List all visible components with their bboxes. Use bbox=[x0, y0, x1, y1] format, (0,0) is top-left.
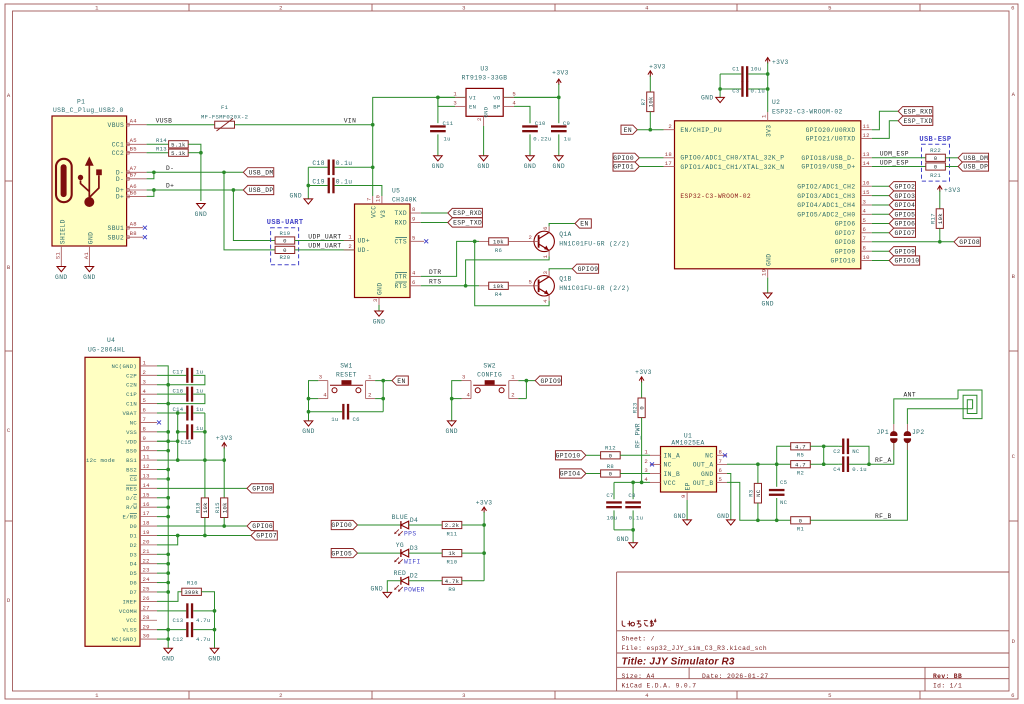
transistor Q1B HN1C01FU-GR bbox=[529, 271, 630, 303]
svg-text:24: 24 bbox=[143, 576, 151, 583]
svg-text:R9: R9 bbox=[448, 586, 455, 593]
global label GPIO10 u2 bbox=[889, 256, 919, 265]
svg-text:GPIO7: GPIO7 bbox=[895, 230, 916, 237]
U4 pin 3 bbox=[140, 378, 157, 385]
label VIN bbox=[344, 118, 356, 125]
svg-text:GPIO9: GPIO9 bbox=[835, 248, 856, 255]
wire RF_A bbox=[869, 443, 894, 464]
svg-text:9: 9 bbox=[412, 216, 416, 223]
svg-text:R11: R11 bbox=[447, 530, 458, 537]
wire U1 EP gnd bbox=[686, 500, 688, 520]
svg-text:14: 14 bbox=[143, 482, 151, 489]
svg-text:VLSS: VLSS bbox=[122, 627, 137, 634]
svg-text:NC: NC bbox=[130, 419, 138, 426]
svg-text:10: 10 bbox=[375, 194, 382, 202]
ground under P1 SHIELD bbox=[55, 267, 67, 281]
capacitor C17 1u bbox=[157, 368, 205, 385]
junction C15 right bbox=[203, 430, 207, 434]
U4 pin names bbox=[112, 363, 138, 643]
svg-text:OUT_B: OUT_B bbox=[693, 480, 714, 487]
svg-text:GPIO21/U0TXD: GPIO21/U0TXD bbox=[806, 136, 856, 143]
wire UDM_UART bbox=[295, 249, 355, 251]
junction mid top bbox=[822, 444, 826, 448]
svg-text:AM1025EA: AM1025EA bbox=[671, 440, 704, 447]
junction D- branch bbox=[222, 170, 226, 174]
svg-text:U3: U3 bbox=[480, 65, 488, 72]
wire D2 to R9 bbox=[409, 580, 443, 582]
svg-text:5: 5 bbox=[828, 692, 832, 699]
U5 pin 9 RXD bbox=[410, 216, 421, 223]
svg-text:D4: D4 bbox=[410, 517, 418, 524]
wire R17 to GPIO8 bbox=[939, 228, 941, 241]
wire R18 top bbox=[204, 460, 206, 498]
svg-text:RF_A: RF_A bbox=[875, 457, 892, 464]
resistor R4 10k bbox=[489, 282, 509, 298]
svg-text:GPIO7: GPIO7 bbox=[256, 533, 277, 540]
svg-text:VBAT: VBAT bbox=[122, 410, 137, 417]
svg-text:GND: GND bbox=[717, 513, 729, 520]
U1 pin 9 EP bbox=[680, 492, 687, 500]
junction C18 VIN bbox=[371, 165, 375, 169]
svg-text:GPIO3: GPIO3 bbox=[895, 193, 916, 200]
junction GPIO8 R17 bbox=[938, 240, 942, 244]
svg-text:BS2: BS2 bbox=[126, 467, 137, 474]
svg-text:B: B bbox=[7, 264, 11, 271]
wire U4 pin22 to bus bbox=[157, 563, 168, 565]
svg-text:KiCad E.D.A. 9.0.7: KiCad E.D.A. 9.0.7 bbox=[622, 683, 697, 690]
svg-text:3: 3 bbox=[319, 374, 323, 381]
svg-text:5.1k: 5.1k bbox=[171, 150, 186, 157]
svg-text:19: 19 bbox=[143, 529, 150, 536]
svg-text:4.7k: 4.7k bbox=[445, 578, 460, 585]
svg-text:D+: D+ bbox=[166, 183, 174, 190]
ground C9 bbox=[553, 156, 565, 170]
title block frame bbox=[617, 572, 1009, 691]
svg-text:15: 15 bbox=[143, 491, 150, 498]
svg-text:2: 2 bbox=[279, 5, 283, 12]
svg-text:1: 1 bbox=[95, 692, 99, 699]
label UDM_UART bbox=[308, 243, 341, 250]
svg-text:HN1C01FU-GR (2/2): HN1C01FU-GR (2/2) bbox=[559, 285, 630, 292]
U5 pin 7 VCC bbox=[366, 196, 373, 204]
svg-text:POWER: POWER bbox=[404, 586, 425, 593]
wire R5 branch bbox=[777, 446, 791, 464]
resistor R5 4.7 bbox=[791, 443, 811, 459]
svg-text:RESET: RESET bbox=[336, 371, 357, 378]
junction CC GND bbox=[199, 151, 203, 155]
junction SW2 pin1 bbox=[525, 379, 529, 383]
U2 vertical pin names bbox=[766, 125, 773, 266]
svg-text:WIFI: WIFI bbox=[404, 559, 421, 566]
power +3V3 leds bbox=[476, 500, 493, 581]
svg-text:NC: NC bbox=[780, 499, 788, 506]
wire U4 pin10 to bus bbox=[157, 450, 168, 452]
svg-text:RTS: RTS bbox=[429, 279, 441, 286]
global label GPIO4 u2 bbox=[889, 200, 915, 209]
junction U4 bus pin13 bbox=[166, 477, 170, 481]
svg-text:CH340K: CH340K bbox=[392, 197, 417, 204]
svg-text:GPIO10: GPIO10 bbox=[556, 453, 581, 460]
global label USB_DP u2 bbox=[958, 162, 988, 171]
svg-text:0: 0 bbox=[283, 238, 287, 245]
junction C12 right bbox=[213, 628, 217, 632]
svg-text:6: 6 bbox=[1011, 692, 1015, 699]
svg-text:ESP_TXD: ESP_TXD bbox=[453, 220, 482, 227]
wire U4 pin3 to bus bbox=[157, 384, 168, 386]
wire EN to U2 bbox=[637, 129, 663, 131]
svg-text:1: 1 bbox=[95, 5, 99, 12]
svg-text:D/C: D/C bbox=[126, 495, 137, 502]
resistor R12 0 bbox=[601, 445, 621, 460]
junction C3 left bbox=[718, 87, 722, 91]
global label GPIO9 u2 bbox=[889, 247, 915, 256]
svg-text:2.2k: 2.2k bbox=[445, 522, 460, 529]
wire SW2 right leg bbox=[518, 381, 535, 399]
svg-text:5: 5 bbox=[529, 278, 533, 285]
svg-text:GPIO8: GPIO8 bbox=[959, 239, 980, 246]
svg-text:Id: 1/1: Id: 1/1 bbox=[933, 683, 962, 690]
no-connect P1 SBU2 bbox=[143, 235, 147, 239]
svg-text:IN_A: IN_A bbox=[664, 453, 681, 460]
svg-text:CC1: CC1 bbox=[112, 142, 124, 149]
svg-text:VCC: VCC bbox=[664, 480, 676, 487]
svg-text:R12: R12 bbox=[605, 445, 616, 452]
no-connect U4 pin7 bbox=[157, 420, 161, 424]
U5 pin 2 UD- bbox=[344, 243, 355, 250]
wire GPIO5 bbox=[872, 213, 889, 215]
svg-text:23: 23 bbox=[143, 567, 150, 574]
svg-text:1: 1 bbox=[511, 374, 515, 381]
svg-text:RES: RES bbox=[126, 485, 137, 492]
svg-text:USB_DP: USB_DP bbox=[249, 187, 274, 194]
svg-text:3: 3 bbox=[644, 467, 648, 474]
svg-text:R18: R18 bbox=[195, 502, 202, 513]
svg-text:C12: C12 bbox=[173, 636, 184, 643]
svg-text:R6: R6 bbox=[495, 247, 502, 254]
wire U1 GND pin bbox=[727, 474, 731, 520]
switch SW1 RESET bbox=[318, 362, 375, 398]
svg-text:30: 30 bbox=[143, 633, 151, 640]
svg-text:0: 0 bbox=[639, 406, 646, 410]
wire OUT_B to RF_B bbox=[727, 482, 791, 520]
no-connect U5 CTS bbox=[424, 239, 428, 243]
global label USB_DP left bbox=[243, 185, 273, 194]
svg-text:GND: GND bbox=[371, 585, 383, 592]
wire VIN bbox=[235, 97, 559, 124]
junction U4 bus pin21 bbox=[166, 552, 170, 556]
svg-text:1k: 1k bbox=[448, 550, 456, 557]
jumper JP1 bbox=[877, 424, 898, 450]
global label USB_DM u2 bbox=[958, 153, 988, 162]
svg-text:GPIO18/USB_D-: GPIO18/USB_D- bbox=[801, 155, 855, 162]
svg-text:GPIO10: GPIO10 bbox=[895, 258, 920, 265]
svg-text:B: B bbox=[1012, 273, 1016, 280]
global label EN u2 bbox=[621, 125, 637, 134]
svg-text:GPIO9: GPIO9 bbox=[541, 378, 562, 385]
P1 pin A1 GND bbox=[83, 232, 95, 266]
U4 pin 7 bbox=[140, 416, 157, 423]
svg-text:GPIO2/ADC1_CH2: GPIO2/ADC1_CH2 bbox=[797, 183, 855, 190]
svg-text:29: 29 bbox=[143, 623, 150, 630]
svg-text:USB_DM: USB_DM bbox=[963, 155, 988, 162]
svg-text:SW1: SW1 bbox=[340, 362, 352, 369]
svg-text:C10: C10 bbox=[535, 120, 546, 127]
svg-text:NC(GND): NC(GND) bbox=[112, 363, 137, 370]
power +3V3 U4 bbox=[216, 435, 233, 460]
junction C1 right bbox=[766, 72, 770, 76]
svg-text:GPIO4: GPIO4 bbox=[895, 202, 916, 209]
svg-text:GPIO7: GPIO7 bbox=[835, 230, 856, 237]
U2 ref value bbox=[772, 99, 843, 115]
U4 pin 11 bbox=[140, 454, 157, 461]
junction R18 GPIO7 bbox=[203, 534, 207, 538]
wire GPIO5 to D3 bbox=[358, 552, 401, 554]
note box USB-UART bbox=[267, 219, 304, 265]
junction DTR R6 bbox=[473, 240, 477, 244]
svg-text:R20: R20 bbox=[279, 254, 290, 261]
power +3V3 at U2 bbox=[765, 58, 788, 113]
svg-text:GPIO3/ADC1_CH3: GPIO3/ADC1_CH3 bbox=[797, 193, 855, 200]
U5 pin 1 UD+ bbox=[344, 234, 355, 241]
global label GPIO6 u2 bbox=[889, 219, 915, 228]
svg-text:3: 3 bbox=[462, 692, 466, 699]
svg-text:GPIO8: GPIO8 bbox=[835, 239, 856, 246]
junction U4 bus pin12 bbox=[166, 468, 170, 472]
svg-text:GPIO4: GPIO4 bbox=[560, 471, 581, 478]
module U2 ESP32-C3-WROOM-02 bbox=[675, 121, 861, 269]
U4 pin 19 bbox=[140, 529, 157, 536]
svg-text:R4: R4 bbox=[495, 291, 503, 298]
note box USB-ESP bbox=[919, 136, 951, 181]
ground D2 bbox=[371, 585, 392, 597]
svg-text:GPIO1/ADC1_CH1/XTAL_32K_N: GPIO1/ADC1_CH1/XTAL_32K_N bbox=[680, 164, 784, 171]
svg-text:C9: C9 bbox=[563, 120, 570, 127]
svg-text:GND: GND bbox=[524, 163, 536, 170]
capacitor C18 0.1u bbox=[308, 160, 372, 176]
resistor R10 1k bbox=[442, 550, 462, 566]
svg-text:GND: GND bbox=[162, 656, 174, 663]
wire Q1A emitter to RTS bbox=[466, 256, 549, 285]
U4 pin 5 bbox=[140, 397, 157, 404]
svg-text:6: 6 bbox=[863, 226, 867, 233]
junction mid bottom bbox=[822, 462, 826, 466]
svg-text:C18: C18 bbox=[312, 160, 324, 167]
svg-text:8: 8 bbox=[412, 206, 416, 213]
svg-text:GPIO10: GPIO10 bbox=[831, 258, 856, 265]
LED D4 BLUE bbox=[392, 514, 419, 538]
capacitor C2 NC bbox=[833, 439, 869, 465]
wire U2 gnd bbox=[767, 278, 769, 293]
svg-text:+3V3: +3V3 bbox=[772, 59, 789, 66]
svg-text:U1: U1 bbox=[684, 433, 692, 440]
svg-text:VO: VO bbox=[493, 95, 501, 102]
U5 pin 3 GND bbox=[372, 298, 379, 306]
svg-text:R21: R21 bbox=[930, 172, 941, 179]
wire U4 pin30 to bus bbox=[157, 638, 168, 640]
svg-text:BP: BP bbox=[493, 104, 501, 111]
wire R11 to rail bbox=[462, 524, 484, 526]
svg-text:File: esp32_JJY_sim_C3_R3.kica: File: esp32_JJY_sim_C3_R3.kicad_sch bbox=[622, 645, 768, 652]
svg-text:JP2: JP2 bbox=[912, 429, 924, 436]
junction U4 bus pin5 bbox=[166, 402, 170, 406]
U4 pin 25 bbox=[140, 586, 157, 593]
wire D+ bbox=[147, 190, 244, 196]
resistor R15 10k bbox=[214, 498, 228, 518]
svg-text:C1N: C1N bbox=[126, 401, 137, 408]
global label USB_DM left bbox=[243, 168, 273, 177]
wire U2 RXD to ESP_RXD bbox=[872, 111, 898, 130]
power +3V3 at U3 bbox=[552, 70, 569, 98]
power +3V3 R23 bbox=[635, 369, 652, 398]
global label GPIO7 u4 bbox=[251, 531, 277, 540]
junction RTS R4 bbox=[464, 284, 468, 288]
U4 pin 10 bbox=[140, 444, 157, 451]
U4 pin 24 bbox=[140, 576, 157, 583]
global label GPIO8 u2 bbox=[954, 237, 980, 246]
svg-text:4: 4 bbox=[412, 270, 416, 277]
svg-text:GPIO9: GPIO9 bbox=[578, 266, 599, 273]
svg-text:ESP32-C3-WROOM-02: ESP32-C3-WROOM-02 bbox=[680, 193, 751, 200]
svg-text:Rev: BB: Rev: BB bbox=[933, 673, 962, 680]
svg-text:GND: GND bbox=[373, 318, 385, 325]
wire GPIO3 bbox=[872, 195, 889, 197]
ground U2 bbox=[761, 293, 773, 307]
wire GPIO4 to R8 bbox=[586, 473, 601, 475]
svg-text:Sheet: /: Sheet: / bbox=[622, 636, 655, 643]
svg-text:D3: D3 bbox=[130, 551, 137, 558]
no-connect U1 pin8 bbox=[723, 453, 727, 457]
svg-text:VCC: VCC bbox=[371, 206, 378, 218]
title block company logo text bbox=[622, 619, 656, 627]
svg-text:GPIO8: GPIO8 bbox=[252, 486, 273, 493]
global label GPIO5 u2 bbox=[889, 210, 915, 219]
svg-text:R16: R16 bbox=[187, 580, 198, 587]
wire R12 to IN_A bbox=[620, 454, 650, 456]
svg-text:0.1u: 0.1u bbox=[336, 160, 353, 167]
svg-text:MF-FSMF020X-2: MF-FSMF020X-2 bbox=[201, 113, 248, 120]
wire GPIO7 bbox=[872, 232, 889, 234]
resistor R16 390k bbox=[157, 580, 215, 611]
wire U4 pin21 to bus bbox=[157, 553, 168, 555]
global label EN SW1 bbox=[392, 376, 408, 385]
resistor R7 10k bbox=[640, 92, 654, 112]
U2 pin 8 GPIO9 bbox=[861, 245, 872, 252]
U4 i2c mode note bbox=[86, 457, 115, 464]
svg-text:0: 0 bbox=[799, 517, 803, 524]
junction C5 bottom bbox=[775, 518, 779, 522]
ic U5 CH340K bbox=[355, 188, 417, 298]
capacitor C19 0.1u bbox=[308, 178, 382, 196]
svg-text:i2c mode: i2c mode bbox=[86, 457, 115, 464]
svg-text:2: 2 bbox=[143, 369, 147, 376]
svg-text:1: 1 bbox=[368, 374, 372, 381]
U4 pin 2 bbox=[140, 369, 157, 376]
label RTS bbox=[429, 279, 441, 286]
svg-text:U4: U4 bbox=[107, 337, 115, 344]
svg-text:USB_C_Plug_USB2.0: USB_C_Plug_USB2.0 bbox=[53, 107, 124, 114]
svg-text:GND: GND bbox=[477, 163, 489, 170]
svg-text:D6: D6 bbox=[130, 580, 137, 587]
global label GPIO1 u2 bbox=[613, 162, 639, 171]
wire R15 top bbox=[223, 460, 225, 498]
global label EN q1a bbox=[575, 219, 591, 228]
capacitor C11 1u bbox=[430, 97, 454, 155]
junction R15 GPIO6 bbox=[222, 524, 226, 528]
svg-text:B6: B6 bbox=[130, 189, 137, 196]
svg-text:R1: R1 bbox=[797, 526, 805, 533]
wire R7 to EN bbox=[649, 112, 651, 130]
wire mid vertical bbox=[823, 446, 825, 464]
U4 pin 22 bbox=[140, 557, 157, 564]
wire VUSB bbox=[147, 124, 215, 126]
svg-text:YG: YG bbox=[396, 542, 404, 549]
svg-text:V3: V3 bbox=[380, 210, 387, 218]
junction vbat pin9 bbox=[176, 439, 180, 443]
svg-text:R17: R17 bbox=[930, 213, 937, 224]
U4 pin 20 bbox=[140, 538, 157, 545]
ground C10 bbox=[524, 156, 536, 170]
svg-text:10u: 10u bbox=[751, 66, 762, 73]
global label ESP_TXD u2 bbox=[898, 116, 933, 125]
wire Q1B collector to GPIO9 bbox=[549, 269, 572, 271]
ground U3 bbox=[477, 156, 489, 170]
svg-text:R8: R8 bbox=[607, 463, 614, 470]
no-connect U1 pin2 bbox=[650, 462, 654, 466]
svg-text:D+: D+ bbox=[116, 194, 124, 201]
svg-text:4.7: 4.7 bbox=[795, 443, 806, 450]
power +3V3 at R17 bbox=[937, 186, 960, 209]
svg-text:C4: C4 bbox=[833, 466, 841, 473]
ground under P1 A1 bbox=[83, 267, 95, 281]
global label GPIO7 u2 bbox=[889, 228, 915, 237]
svg-text:1u: 1u bbox=[331, 416, 338, 423]
jumper JP2 bbox=[904, 424, 925, 450]
wire GPIO0 to D4 bbox=[358, 524, 401, 526]
junction led rail D4 bbox=[482, 523, 486, 527]
wire C1 C3 left leg bbox=[719, 74, 721, 97]
svg-text:3: 3 bbox=[453, 100, 457, 107]
P1 pin B6 D+ bbox=[116, 189, 147, 200]
capacitor C1 10u bbox=[720, 66, 768, 82]
svg-text:GND: GND bbox=[290, 193, 302, 200]
wire VCC row bbox=[614, 481, 650, 483]
svg-text:CC2: CC2 bbox=[112, 150, 124, 157]
svg-text:GND: GND bbox=[83, 274, 95, 281]
svg-text:VBUS: VBUS bbox=[108, 122, 125, 129]
U2 pin 4 GPIO5/ADC2_CH0 bbox=[861, 208, 872, 215]
wire GPIO1 bbox=[639, 166, 663, 168]
svg-text:14: 14 bbox=[863, 160, 871, 167]
svg-text:GND: GND bbox=[701, 95, 713, 102]
svg-text:6: 6 bbox=[719, 467, 723, 474]
junction pin20 tie bbox=[176, 534, 180, 538]
svg-text:C8: C8 bbox=[628, 492, 635, 499]
svg-text:0: 0 bbox=[609, 452, 613, 459]
svg-text:18: 18 bbox=[143, 520, 150, 527]
junction VO C9 bbox=[557, 96, 561, 100]
U4 pin 18 bbox=[140, 520, 157, 527]
resistor R21 0 bbox=[926, 163, 946, 179]
wire U4 pin12 to bus bbox=[157, 469, 168, 471]
svg-text:USB_DP: USB_DP bbox=[963, 164, 988, 171]
svg-text:7: 7 bbox=[366, 197, 373, 201]
resistor R8 0 bbox=[601, 463, 621, 478]
svg-text:JP1: JP1 bbox=[877, 429, 889, 436]
U2 pin 2 EN bbox=[664, 123, 675, 130]
svg-text:GND: GND bbox=[617, 536, 629, 543]
LED D3 YG bbox=[394, 542, 420, 566]
wire GPIO6 u4 bbox=[157, 525, 247, 527]
